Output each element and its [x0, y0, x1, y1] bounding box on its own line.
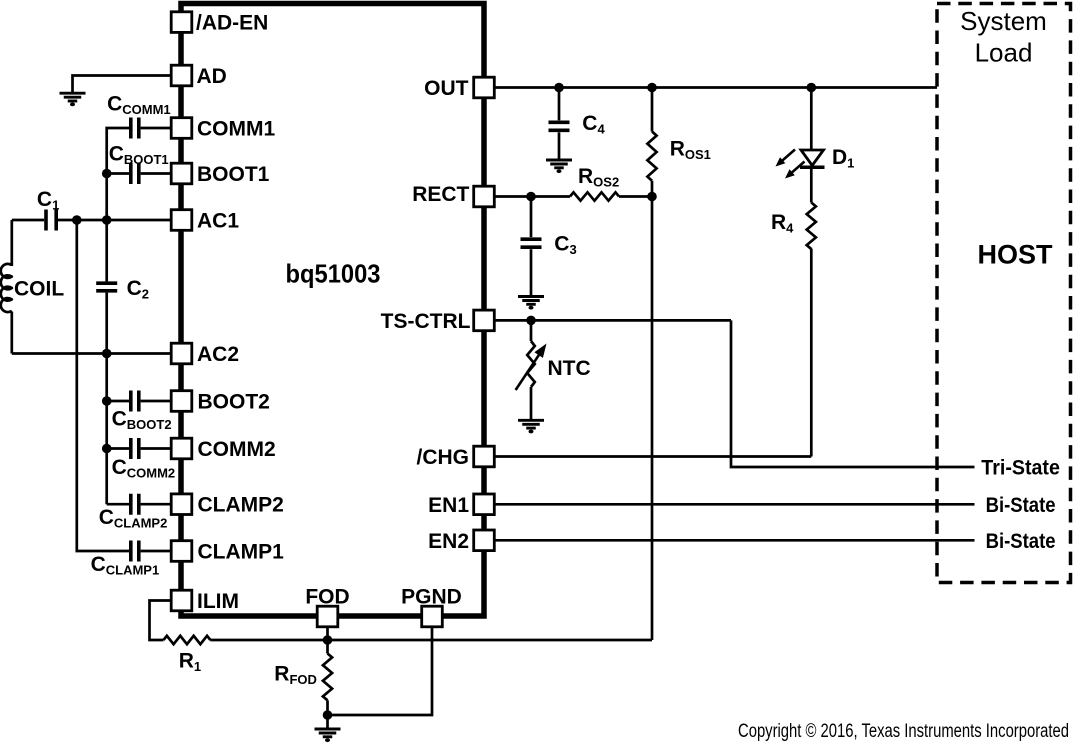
- wire D1 cathode to R4: [810, 167, 813, 202]
- wire AC1 branch down to CLAMP1: [77, 220, 129, 551]
- capacitor C3 plates: [521, 239, 542, 247]
- svg-text:ROS1: ROS1: [670, 138, 711, 163]
- NTC arrow: [516, 344, 547, 391]
- pin OUT: [474, 77, 495, 98]
- wire AC2 row: [12, 352, 171, 355]
- wire CLAMP2 cap to pin: [141, 503, 172, 506]
- svg-text:Tri-State: Tri-State: [981, 457, 1060, 480]
- pin ILIM: [171, 590, 192, 611]
- inductor COIL: [1, 264, 12, 312]
- pin RECT: [474, 186, 495, 207]
- capacitor CBOOT1 plates: [131, 163, 139, 184]
- wire EN2 row: [494, 539, 974, 542]
- wire ROS2 to ROS1 junction: [619, 195, 652, 198]
- System Load HOST dashed box: [937, 4, 1071, 583]
- wire node to ground symbol: [326, 715, 329, 729]
- wire BOOT2 cap left stub: [107, 400, 129, 403]
- svg-text:ILIM: ILIM: [197, 590, 239, 613]
- wire ROS1 column vertical: [651, 181, 654, 640]
- junction node OUT D1: [807, 83, 817, 93]
- wire ILIM to R1: [150, 601, 172, 641]
- pin EN1: [474, 494, 495, 515]
- junction node AC1 branch: [72, 215, 82, 225]
- svg-text:CLAMP1: CLAMP1: [198, 541, 285, 564]
- resistor ROS1: [647, 132, 656, 181]
- ground at AD: [60, 93, 86, 106]
- svg-text:AC2: AC2: [197, 343, 239, 366]
- pin BOOT1: [171, 163, 192, 184]
- capacitor CBOOT2 plates: [131, 391, 139, 412]
- junction node OUT ROS1: [647, 83, 657, 93]
- wire RECT to C3: [530, 197, 533, 238]
- svg-text:NTC: NTC: [548, 357, 591, 380]
- svg-text:CCOMM2: CCOMM2: [112, 456, 176, 481]
- capacitor C4 plates: [549, 122, 570, 130]
- pin FOD: [317, 606, 338, 627]
- pin EN2: [474, 530, 495, 551]
- svg-text:BOOT1: BOOT1: [197, 163, 270, 186]
- svg-text:OUT: OUT: [424, 77, 469, 100]
- svg-text:Copyright © 2016, Texas Instru: Copyright © 2016, Texas Instruments Inco…: [738, 721, 1069, 742]
- wire BOOT1 cap left stub: [107, 172, 129, 175]
- svg-text:AD: AD: [197, 65, 227, 88]
- pin COMM2: [171, 438, 192, 459]
- wire RFOD bottom to node: [326, 700, 329, 715]
- svg-text:RECT: RECT: [412, 183, 469, 206]
- wire C4 to ground: [558, 132, 561, 160]
- wire BOOT1 cap to pin: [141, 172, 172, 175]
- pin TS-CTRL: [474, 310, 495, 331]
- wire COMM1 cap to pin: [141, 127, 172, 130]
- svg-text:/CHG: /CHG: [417, 446, 470, 469]
- junction node ROS2 ROS1: [647, 192, 657, 202]
- svg-text:R4: R4: [771, 211, 794, 236]
- pin /AD-EN: [171, 12, 192, 33]
- wire coil top to C1: [12, 219, 44, 222]
- svg-text:C4: C4: [582, 112, 605, 137]
- wire CLAMP1 cap to pin: [141, 550, 172, 553]
- LED D1 emission arrows: [776, 150, 805, 179]
- wire D1 anode: [810, 88, 813, 151]
- svg-text:ROS2: ROS2: [578, 165, 619, 190]
- pin /CHG: [474, 446, 495, 467]
- resistor R4: [807, 203, 816, 250]
- junction node OUT C4: [554, 83, 564, 93]
- junction node TS-CTRL NTC: [526, 316, 536, 326]
- capacitor CCOMM2 plates: [131, 438, 139, 459]
- junction node FOD RFOD: [323, 635, 333, 645]
- junction node AC2 C2: [102, 349, 112, 359]
- wire COMM2 cap left stub: [107, 447, 129, 450]
- wire C1 to AC1 pin: [58, 219, 171, 222]
- svg-text:HOST: HOST: [977, 240, 1053, 270]
- svg-text:COMM2: COMM2: [198, 438, 276, 461]
- svg-text:AC1: AC1: [197, 210, 239, 233]
- junction node RFOD ground: [323, 710, 333, 720]
- wire TS-CTRL to NTC: [530, 320, 533, 341]
- capacitor CCLAMP2 plates: [131, 494, 139, 515]
- svg-text:R1: R1: [179, 649, 201, 674]
- svg-text:C3: C3: [554, 232, 576, 257]
- junction node COMM2 cap: [102, 444, 112, 454]
- wire AD to ground: [73, 76, 172, 94]
- svg-text:D1: D1: [832, 146, 854, 171]
- wire COMM1 cap left elbow: [107, 128, 129, 281]
- svg-text:CCLAMP2: CCLAMP2: [99, 506, 168, 531]
- svg-text:PGND: PGND: [401, 585, 462, 608]
- svg-text:FOD: FOD: [305, 585, 349, 608]
- svg-text:C1: C1: [37, 188, 59, 213]
- svg-text:Load: Load: [975, 37, 1033, 67]
- ground at RFOD: [315, 729, 341, 742]
- wire /CHG row: [494, 455, 811, 458]
- wire NTC to ground: [530, 387, 533, 420]
- pin AD: [171, 65, 192, 86]
- resistor RFOD: [323, 654, 332, 701]
- junction node AC1 C2: [102, 215, 112, 225]
- svg-text:COMM1: COMM1: [197, 118, 275, 141]
- svg-text:CCLAMP1: CCLAMP1: [91, 553, 160, 578]
- wire TS-CTRL to Tri-State: [731, 320, 975, 467]
- wire R1 to ROS1 column: [210, 639, 652, 642]
- capacitor C2 plates: [96, 283, 117, 291]
- pin CLAMP2: [171, 494, 192, 515]
- svg-text:EN1: EN1: [428, 494, 469, 517]
- svg-text:System: System: [960, 6, 1047, 36]
- pin BOOT2: [171, 391, 192, 412]
- capacitor C1 plates: [46, 210, 56, 231]
- svg-text:/AD-EN: /AD-EN: [196, 12, 268, 35]
- wire ground node to PGND: [328, 617, 433, 715]
- junction node BOOT2 cap: [102, 396, 112, 406]
- pin COMM1: [171, 118, 192, 139]
- pin AC2: [171, 343, 192, 364]
- wire coil left bottom segment: [10, 312, 13, 354]
- svg-text:BOOT2: BOOT2: [198, 391, 270, 414]
- wire EN1 row: [494, 503, 974, 506]
- wire RECT to ROS2: [494, 195, 570, 198]
- wire FOD node to RFOD: [326, 640, 329, 654]
- svg-text:CCOMM1: CCOMM1: [107, 93, 171, 118]
- capacitor CCOMM1 plates: [131, 118, 139, 139]
- ground at C4: [546, 160, 572, 173]
- svg-text:Bi-State: Bi-State: [986, 494, 1056, 517]
- wire BOOT2 cap to pin: [141, 400, 172, 403]
- svg-text:CBOOT2: CBOOT2: [112, 408, 172, 433]
- svg-text:C2: C2: [127, 277, 149, 302]
- wire TS-CTRL row: [494, 319, 731, 322]
- LED D1 triangle: [800, 150, 825, 167]
- svg-text:COIL: COIL: [14, 277, 64, 300]
- svg-text:RFOD: RFOD: [274, 663, 317, 688]
- svg-text:bq51003: bq51003: [286, 259, 381, 289]
- junction node RECT C3: [526, 192, 536, 202]
- thermistor NTC zigzag: [527, 341, 535, 387]
- pin PGND: [422, 606, 443, 627]
- ground at C3: [518, 297, 544, 310]
- wire R4 to /CHG row: [810, 249, 813, 457]
- svg-text:EN2: EN2: [428, 530, 469, 553]
- wire CLAMP2 cap left stub: [107, 503, 129, 506]
- pin AC1: [171, 210, 192, 231]
- wire FOD stub down: [326, 617, 329, 640]
- svg-text:CLAMP2: CLAMP2: [198, 494, 284, 517]
- resistor R1: [164, 636, 211, 644]
- wire OUT to C4: [558, 88, 561, 121]
- svg-text:TS-CTRL: TS-CTRL: [381, 310, 471, 333]
- ground at NTC: [518, 420, 544, 433]
- wire C3 to ground: [530, 249, 533, 296]
- wire coil left top segment: [10, 220, 13, 266]
- svg-text:Bi-State: Bi-State: [986, 530, 1056, 553]
- wire OUT to ROS1: [651, 88, 654, 132]
- capacitor CCLAMP1 plates: [131, 541, 139, 562]
- wire COMM2 cap to pin: [141, 447, 172, 450]
- junction node BOOT1 cap: [102, 169, 112, 179]
- wire OUT row: [494, 86, 937, 89]
- svg-text:CBOOT1: CBOOT1: [109, 143, 169, 168]
- wire C2 bottom to CLAMP2 elbow: [105, 293, 108, 505]
- IC U1 bq51003 body: [181, 4, 484, 617]
- pin CLAMP1: [171, 541, 192, 562]
- resistor ROS2: [570, 192, 619, 200]
